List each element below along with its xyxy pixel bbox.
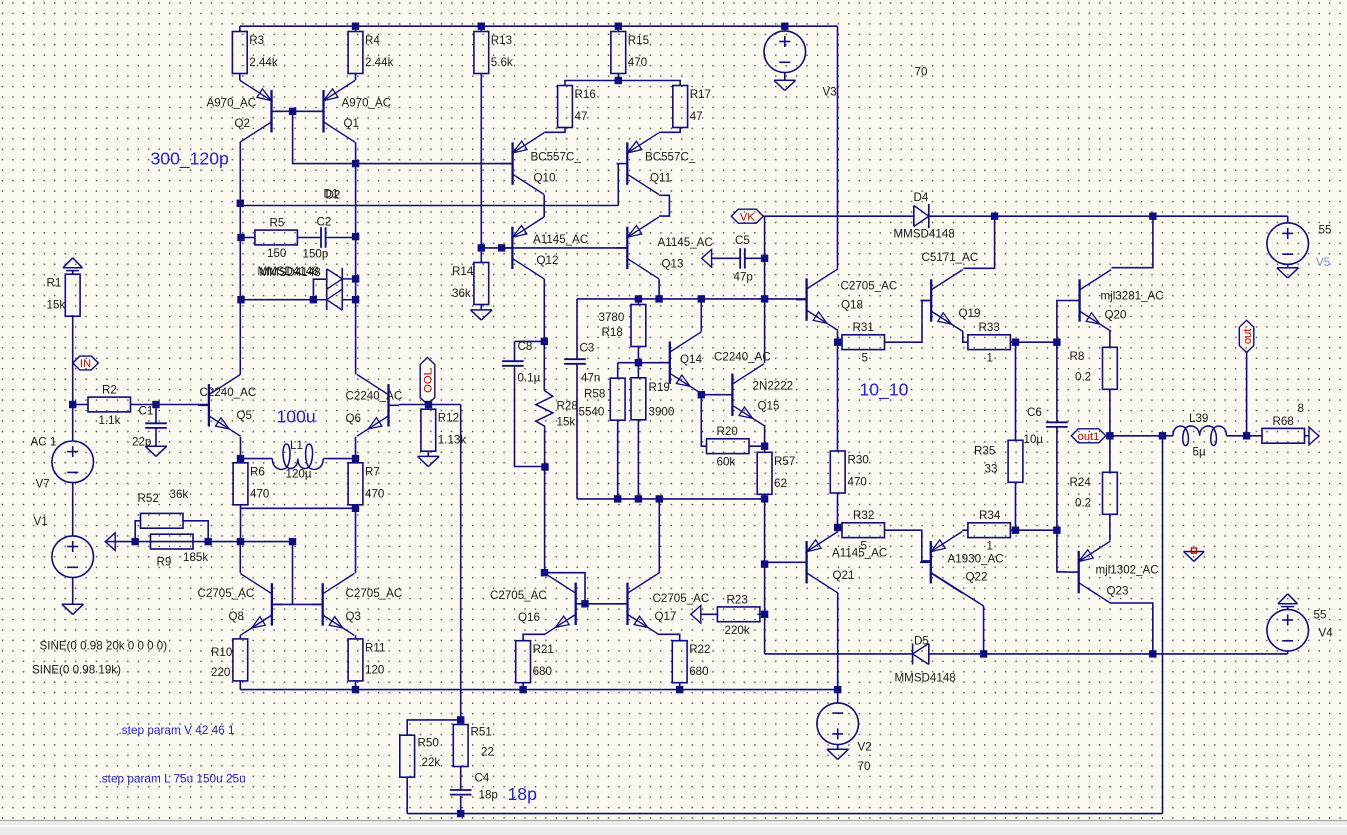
label R52 (138, 488, 189, 505)
svg-text:C2240_AC: C2240_AC (200, 386, 257, 399)
wire Q8 emitter drop (239, 635, 241, 639)
junction (761, 495, 768, 502)
svg-text:Q12: Q12 (537, 254, 559, 267)
junction (1149, 213, 1156, 220)
junction (457, 810, 464, 817)
wire R50 loop (406, 777, 408, 814)
junction (1243, 432, 1250, 439)
wire C3 bottom drop (576, 364, 578, 499)
svg-text:150p: 150p (303, 248, 329, 261)
svg-text:2N2222: 2N2222 (753, 380, 794, 393)
svg-text:R35: R35 (974, 445, 995, 458)
wire Q2-Q1 base rail (272, 110, 324, 112)
svg-text:Q22: Q22 (966, 571, 988, 584)
label V2 (858, 741, 872, 774)
junction (352, 296, 359, 303)
wire R68 right lead (1304, 435, 1309, 437)
resistor R18 (631, 305, 646, 347)
junction (834, 524, 841, 531)
wire R7 node drop (355, 508, 357, 573)
junction (635, 359, 642, 366)
svg-text:Q5: Q5 (237, 409, 252, 422)
svg-text:60k: 60k (717, 456, 736, 469)
svg-text:70: 70 (915, 66, 928, 79)
label C4 (475, 772, 498, 802)
svg-text:3900: 3900 (649, 406, 675, 419)
wire R7 top stub (355, 459, 357, 463)
transistor Q11 (617, 133, 696, 195)
wire R32 right to Q22 base (885, 530, 931, 561)
transistor Q13 (617, 217, 713, 279)
wire C3 top stub (576, 299, 578, 359)
resistor R5 (255, 217, 298, 261)
wire R14 top stub (480, 248, 482, 263)
svg-text:R8: R8 (1070, 350, 1085, 363)
svg-text:Q15: Q15 (758, 400, 780, 413)
wire R50 top (407, 720, 461, 735)
wire R18 bottom stub (637, 347, 639, 363)
svg-text:R4: R4 (365, 34, 380, 47)
wire D5 rail right (929, 653, 1288, 655)
terminal arrow R68 load arrow (1309, 427, 1319, 445)
junction (698, 295, 705, 302)
annotation SINE2 (32, 664, 121, 677)
wire R24 top stub (1109, 436, 1111, 473)
diode D5 (895, 635, 956, 685)
wire R28 bottom to Q16 node (544, 430, 546, 573)
resistor R52 (0, 500, 183, 528)
label V1 (34, 515, 48, 528)
annotation 300_120p (151, 149, 229, 170)
svg-text:3780: 3780 (599, 311, 625, 324)
junction (761, 443, 768, 450)
wire R8 bottom drop (1109, 390, 1111, 436)
wire out flag drop (1246, 353, 1248, 436)
svg-text:1.1k: 1.1k (99, 414, 121, 427)
svg-text:R57: R57 (774, 455, 795, 468)
svg-text:R33: R33 (979, 321, 1000, 334)
wire OOL jog (429, 404, 461, 406)
svg-text:R30: R30 (848, 454, 869, 467)
svg-text:C5171_AC: C5171_AC (922, 251, 979, 264)
svg-text:2.44k: 2.44k (365, 56, 394, 69)
junction (352, 275, 359, 282)
resistor R51 (453, 725, 468, 767)
svg-text:120µ: 120µ (286, 468, 312, 481)
svg-text:V5: V5 (1316, 256, 1330, 269)
junction (1053, 339, 1060, 346)
junction (1012, 339, 1019, 346)
junction (352, 233, 359, 240)
wire Q19 collector riser (963, 216, 994, 268)
annotation 10_10 (860, 380, 909, 401)
transistor Q8 (198, 574, 283, 636)
junction (761, 560, 768, 567)
junction (519, 686, 526, 693)
voltage source V7 (52, 441, 94, 483)
wire R52 right loop (183, 521, 208, 542)
wire Q14 emitter node (701, 395, 706, 447)
svg-text:Q13: Q13 (662, 258, 684, 271)
wire L1 left lead (241, 458, 273, 460)
wire lower gnd rail (240, 689, 837, 691)
transistor Q15 (722, 364, 794, 426)
label R24 (1070, 476, 1092, 510)
resistor R33 (968, 321, 1011, 365)
label C6 (1024, 406, 1044, 446)
transistor Q20 (1069, 270, 1164, 332)
svg-text:L39: L39 (1189, 412, 1208, 425)
wire R17 top lead (618, 81, 680, 86)
resistor R3 (232, 32, 277, 74)
wire R15 bottom lead (617, 74, 619, 81)
wire L39 right lead (1227, 435, 1247, 437)
wire R12 top stub (427, 405, 429, 410)
svg-text:5µ: 5µ (1193, 446, 1206, 459)
label D1 D2 overlapped (324, 188, 341, 202)
svg-text:A1145_AC: A1145_AC (832, 547, 887, 560)
svg-text:R15: R15 (628, 34, 649, 47)
transistor Q14 (659, 332, 771, 394)
junction (614, 495, 621, 502)
wire D1 anode jog (313, 279, 326, 300)
junction (352, 160, 359, 167)
net flag VK (731, 209, 763, 223)
wire Q18 emitter drop (837, 331, 839, 451)
wire Q21 collector drop (837, 593, 839, 690)
wire C6 top drop (1056, 342, 1058, 422)
wire Q23 collector jog (1110, 603, 1153, 654)
svg-text:1: 1 (987, 352, 993, 365)
svg-text:MMSD4148: MMSD4148 (260, 266, 321, 279)
wire R33 junction row (1016, 341, 1057, 343)
wire R3 to Q2 emitter (239, 74, 241, 81)
ground V2 ground (827, 749, 849, 759)
floating ground flag (1184, 548, 1205, 561)
wire R23 bottom jog (765, 653, 807, 655)
svg-text:R3: R3 (249, 34, 264, 47)
resistor R28 (536, 391, 578, 431)
resistor R11 (348, 639, 385, 681)
svg-text:.step param V 42 46 1: .step param V 42 46 1 (119, 723, 235, 737)
wire R33 right lead (1010, 341, 1015, 343)
svg-text:0.1µ: 0.1µ (518, 372, 541, 385)
wire Q1 collector drop (355, 142, 357, 163)
wire R6 top stub (240, 459, 242, 463)
resistor R14 (452, 263, 489, 305)
junction (615, 23, 622, 30)
junction (615, 77, 622, 84)
voltage source V5 (1267, 223, 1309, 265)
svg-text:680: 680 (533, 665, 552, 678)
resistor R15 (611, 32, 649, 74)
svg-text:18p: 18p (508, 784, 538, 804)
svg-text:220: 220 (211, 666, 230, 679)
junction (991, 213, 998, 220)
svg-text:470: 470 (365, 487, 384, 500)
svg-text:C2705_AC: C2705_AC (841, 280, 898, 293)
annotation SINE1 (40, 640, 168, 653)
svg-text:R17: R17 (690, 88, 711, 101)
junction (352, 686, 359, 693)
svg-text:mjl3281_AC: mjl3281_AC (1101, 290, 1164, 303)
junction (352, 455, 359, 462)
transistor Q5 (198, 374, 256, 436)
wire Q17 collector drop (658, 499, 660, 573)
wire R23 right lead (757, 613, 764, 615)
svg-text:R28: R28 (557, 400, 578, 413)
wire Q17 emitter jog (659, 634, 680, 640)
wire VK rail 2 (929, 215, 1288, 217)
svg-text:VK: VK (740, 211, 755, 223)
resistor R6 (233, 463, 269, 505)
wire L1 right lead (323, 458, 355, 460)
wire Q11 emitter to R17 (659, 128, 680, 132)
wire R35 bottom stub (1015, 483, 1017, 531)
voltage source V3 (764, 31, 806, 73)
wire Q5 emitter drop (240, 437, 242, 459)
wire Q14 collector rise (700, 299, 702, 332)
svg-text:470: 470 (848, 476, 867, 489)
svg-text:22k: 22k (422, 756, 441, 769)
svg-text:V3: V3 (823, 86, 837, 99)
svg-text:AC 1: AC 1 (31, 436, 57, 449)
wire lower mid rail (577, 498, 765, 500)
wire R15 top lead (617, 26, 619, 31)
resistor R8 (1103, 347, 1118, 389)
svg-text:BC557C_: BC557C_ (531, 151, 582, 164)
ground V1 ground (62, 604, 84, 614)
svg-text:C6: C6 (1027, 406, 1042, 419)
resistor R12 (421, 409, 466, 451)
resistor R50 (400, 735, 415, 777)
transistor Q22 (920, 531, 1004, 593)
wire R6 bottom loop (240, 505, 242, 542)
wire Q22 emitter end (962, 529, 968, 531)
wire R68 lead (1247, 435, 1262, 437)
wire R18 top stub (637, 299, 639, 305)
wire Q13 collector drop (658, 279, 660, 299)
svg-text:R14: R14 (452, 265, 474, 278)
transistor Q16 (490, 573, 587, 635)
capacitor C3 (564, 359, 586, 364)
wire V3 gnd stub (784, 73, 786, 81)
svg-text:R24: R24 (1070, 476, 1092, 489)
svg-text:Q16: Q16 (518, 611, 540, 624)
svg-text:IN: IN (80, 358, 91, 370)
junction (69, 401, 76, 408)
wire R12 bottom stub (427, 451, 429, 456)
capacitor C2 (321, 227, 326, 248)
svg-text:10µ: 10µ (1024, 433, 1044, 446)
svg-text:15k: 15k (47, 299, 66, 312)
junction (289, 108, 296, 115)
junction (541, 338, 548, 345)
svg-text:1.13k: 1.13k (438, 434, 467, 447)
transistor Q18 (796, 269, 897, 331)
wire Q10 collector drop (543, 195, 545, 206)
svg-text:R32: R32 (853, 509, 874, 522)
wire R51 bottom to C4 (460, 767, 462, 790)
wire Q19 emitter diag end (963, 331, 968, 342)
wire Q6 collector rise (355, 299, 357, 374)
wire Q12-Q13 base wire (512, 247, 627, 249)
label R68 (1298, 402, 1304, 415)
junction (237, 455, 244, 462)
wire R4 to Q1 emitter (355, 74, 357, 81)
svg-text:2.44k: 2.44k (249, 56, 278, 69)
junction (310, 296, 317, 303)
label V7 (31, 436, 57, 491)
label V5 (1316, 224, 1331, 270)
wire Q15 collector rise (764, 299, 766, 363)
svg-text:V4: V4 (1319, 627, 1334, 640)
transistor Q21 (796, 531, 887, 593)
svg-text:Q23: Q23 (1107, 585, 1129, 598)
wire C2 right lead (326, 237, 356, 239)
svg-text:55: 55 (1314, 609, 1327, 622)
wire Q16 emitter jog (523, 634, 545, 640)
wire C8 top stub (514, 341, 516, 361)
svg-text:47: 47 (690, 110, 703, 123)
junction (478, 23, 485, 30)
wire feedback to base drop (292, 542, 294, 605)
label R10 (211, 646, 232, 679)
wire R20 right lead (749, 445, 765, 447)
wire R22 bottom stub (679, 683, 681, 690)
wire Q22 collector drop (983, 606, 985, 654)
wire C8 bottom loop (515, 366, 545, 467)
wire R24 bottom stub (1109, 515, 1111, 541)
svg-text:C2705_AC: C2705_AC (198, 587, 255, 600)
wire Q8-Q3 base rail (272, 603, 323, 605)
transistor Q1 (313, 80, 391, 142)
junction (237, 296, 244, 303)
label MMSD4148 overlapped (258, 265, 321, 279)
wire R51 top drop (460, 405, 462, 720)
wire base junction drop (293, 111, 512, 163)
junction (478, 244, 485, 251)
inductor L39 (1173, 412, 1227, 459)
wire R4 top lead (355, 26, 357, 31)
capacitor C6 (1046, 422, 1068, 427)
wire rail over diodes (355, 237, 357, 300)
junction (676, 686, 683, 693)
wire R5-C2 tie (297, 237, 321, 239)
svg-text:R22: R22 (689, 643, 710, 656)
wire Q10 emitter to R16 (544, 128, 565, 132)
junction (237, 234, 244, 241)
svg-text:10_10: 10_10 (860, 380, 909, 401)
resistor R34 (968, 509, 1011, 553)
svg-text:out: out (1242, 328, 1254, 344)
svg-text:1: 1 (987, 540, 993, 553)
wire V3 rail down to Q18 collector (837, 26, 839, 268)
svg-text:R9: R9 (157, 556, 172, 569)
status bar (0, 820, 1347, 835)
svg-text:5: 5 (862, 352, 868, 365)
svg-text:SINE(0 0.98 19k): SINE(0 0.98 19k) (32, 664, 121, 677)
annotation 18p (508, 784, 538, 804)
svg-text:R5: R5 (270, 217, 285, 230)
wire V3 top lead (784, 26, 786, 31)
resistor R20 (707, 425, 750, 469)
svg-text:Q3: Q3 (346, 610, 361, 623)
svg-text:C2705_AC: C2705_AC (346, 587, 403, 600)
label R19 (649, 381, 675, 419)
transistor Q19 (920, 251, 980, 331)
wire out1 to L39 (1163, 435, 1174, 437)
capacitor C8 (502, 361, 524, 366)
junction (761, 611, 768, 618)
wire out1 down rail (1162, 436, 1164, 814)
svg-text:Q21: Q21 (833, 569, 855, 582)
resistor R10 (233, 639, 248, 681)
svg-text:D5: D5 (914, 635, 929, 648)
label R18 (599, 311, 625, 339)
transistor Q10 (502, 133, 582, 195)
svg-text:8: 8 (1298, 402, 1304, 415)
ground R14 ground (471, 310, 493, 320)
wire R19 top stub (637, 363, 639, 378)
wire Q16-Q17 base rail (576, 603, 628, 605)
wire Q11 base jog (617, 164, 619, 206)
svg-text:A1930_AC: A1930_AC (948, 553, 1004, 566)
capacitor C5 (740, 248, 745, 269)
transistor Q2 (207, 80, 283, 142)
wire V4 pwr stub (1287, 607, 1289, 610)
resistor R16 (558, 86, 596, 128)
wire V7-V1 (72, 483, 74, 536)
diode D4 (894, 191, 955, 241)
wire Q20 emitter drop (1109, 331, 1111, 348)
svg-text:R2: R2 (102, 384, 117, 397)
resistor R31 (842, 321, 885, 365)
resistor R19 (631, 378, 646, 420)
svg-text:BC557C_: BC557C_ (645, 151, 696, 164)
svg-text:Q11: Q11 (650, 172, 671, 185)
svg-text:5.6k: 5.6k (491, 56, 513, 69)
junction (425, 401, 432, 408)
transistor Q6 (346, 374, 403, 436)
junction (761, 295, 768, 302)
wire R1 top stub (72, 271, 74, 275)
label R8 (1070, 350, 1092, 384)
wire Q21 base wire (765, 561, 796, 563)
svg-text:100u: 100u (277, 407, 316, 427)
junction (352, 23, 359, 30)
wire R7 bottom stub (355, 505, 357, 509)
svg-text:R19: R19 (649, 381, 670, 394)
svg-text:18p: 18p (479, 789, 498, 802)
wire R35 top drop (1015, 342, 1017, 440)
resistor R13 (474, 32, 513, 74)
wire Q20 collector riser (1112, 216, 1153, 268)
power flag R1 power flag (63, 258, 83, 271)
svg-text:R23: R23 (727, 593, 748, 606)
junction (1149, 650, 1156, 657)
svg-text:55: 55 (1319, 224, 1332, 237)
wire C6 bottom drop (1056, 427, 1058, 530)
wire VK vertical (764, 216, 766, 299)
svg-text:C1: C1 (139, 405, 154, 418)
resistor R4 (348, 32, 393, 74)
wire C5 lead (745, 257, 765, 259)
terminal arrow R23 arrow (691, 606, 701, 624)
wire R13 top lead (480, 26, 482, 31)
label R35 (974, 445, 997, 476)
svg-text:R12: R12 (438, 412, 459, 425)
